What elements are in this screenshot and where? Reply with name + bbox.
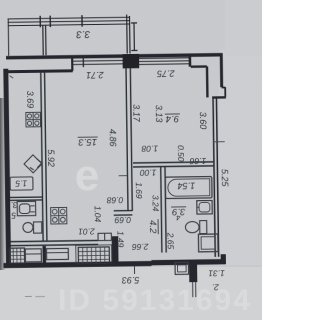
svg-text:0.69: 0.69 <box>114 215 131 225</box>
svg-text:3.69: 3.69 <box>25 91 35 109</box>
svg-text:3.13: 3.13 <box>154 105 164 123</box>
svg-text:2.75: 2.75 <box>156 68 176 78</box>
svg-text:1.66: 1.66 <box>189 156 206 166</box>
svg-text:1.54: 1.54 <box>178 180 196 190</box>
svg-text:2.65: 2.65 <box>166 232 176 250</box>
svg-text:3.3: 3.3 <box>76 28 90 39</box>
svg-text:2.01: 2.01 <box>78 226 96 236</box>
svg-text:0.50: 0.50 <box>176 145 186 162</box>
svg-text:5: 5 <box>11 211 16 221</box>
svg-text:1.5: 1.5 <box>15 178 27 188</box>
svg-text:3.24: 3.24 <box>150 195 160 212</box>
svg-text:0.68: 0.68 <box>106 195 123 205</box>
svg-text:2.71: 2.71 <box>86 70 105 80</box>
svg-text:3.17: 3.17 <box>131 104 141 123</box>
svg-text:ID 59131694: ID 59131694 <box>58 284 252 317</box>
svg-text:5.93: 5.93 <box>122 275 140 285</box>
svg-text:3.60: 3.60 <box>198 112 208 130</box>
svg-text:1.00: 1.00 <box>140 168 157 178</box>
svg-text:1.69: 1.69 <box>134 182 144 199</box>
svg-text:2.: 2. <box>212 282 220 292</box>
svg-text:3.: 3. <box>11 200 18 210</box>
svg-text:9.4: 9.4 <box>166 113 179 124</box>
svg-text:15.3: 15.3 <box>78 136 97 147</box>
svg-text:2.66: 2.66 <box>132 242 150 252</box>
svg-text:4.2: 4.2 <box>147 220 158 234</box>
svg-text:4: 4 <box>176 213 180 222</box>
svg-text:1.49: 1.49 <box>115 231 125 248</box>
svg-text:1.31: 1.31 <box>208 268 225 278</box>
svg-text:1.04: 1.04 <box>93 206 103 223</box>
svg-text:4.86: 4.86 <box>107 129 117 147</box>
svg-text:1.08: 1.08 <box>141 144 158 154</box>
svg-text:5.25: 5.25 <box>219 169 229 188</box>
svg-text:е: е <box>75 151 99 200</box>
svg-text:5.92: 5.92 <box>46 149 56 167</box>
